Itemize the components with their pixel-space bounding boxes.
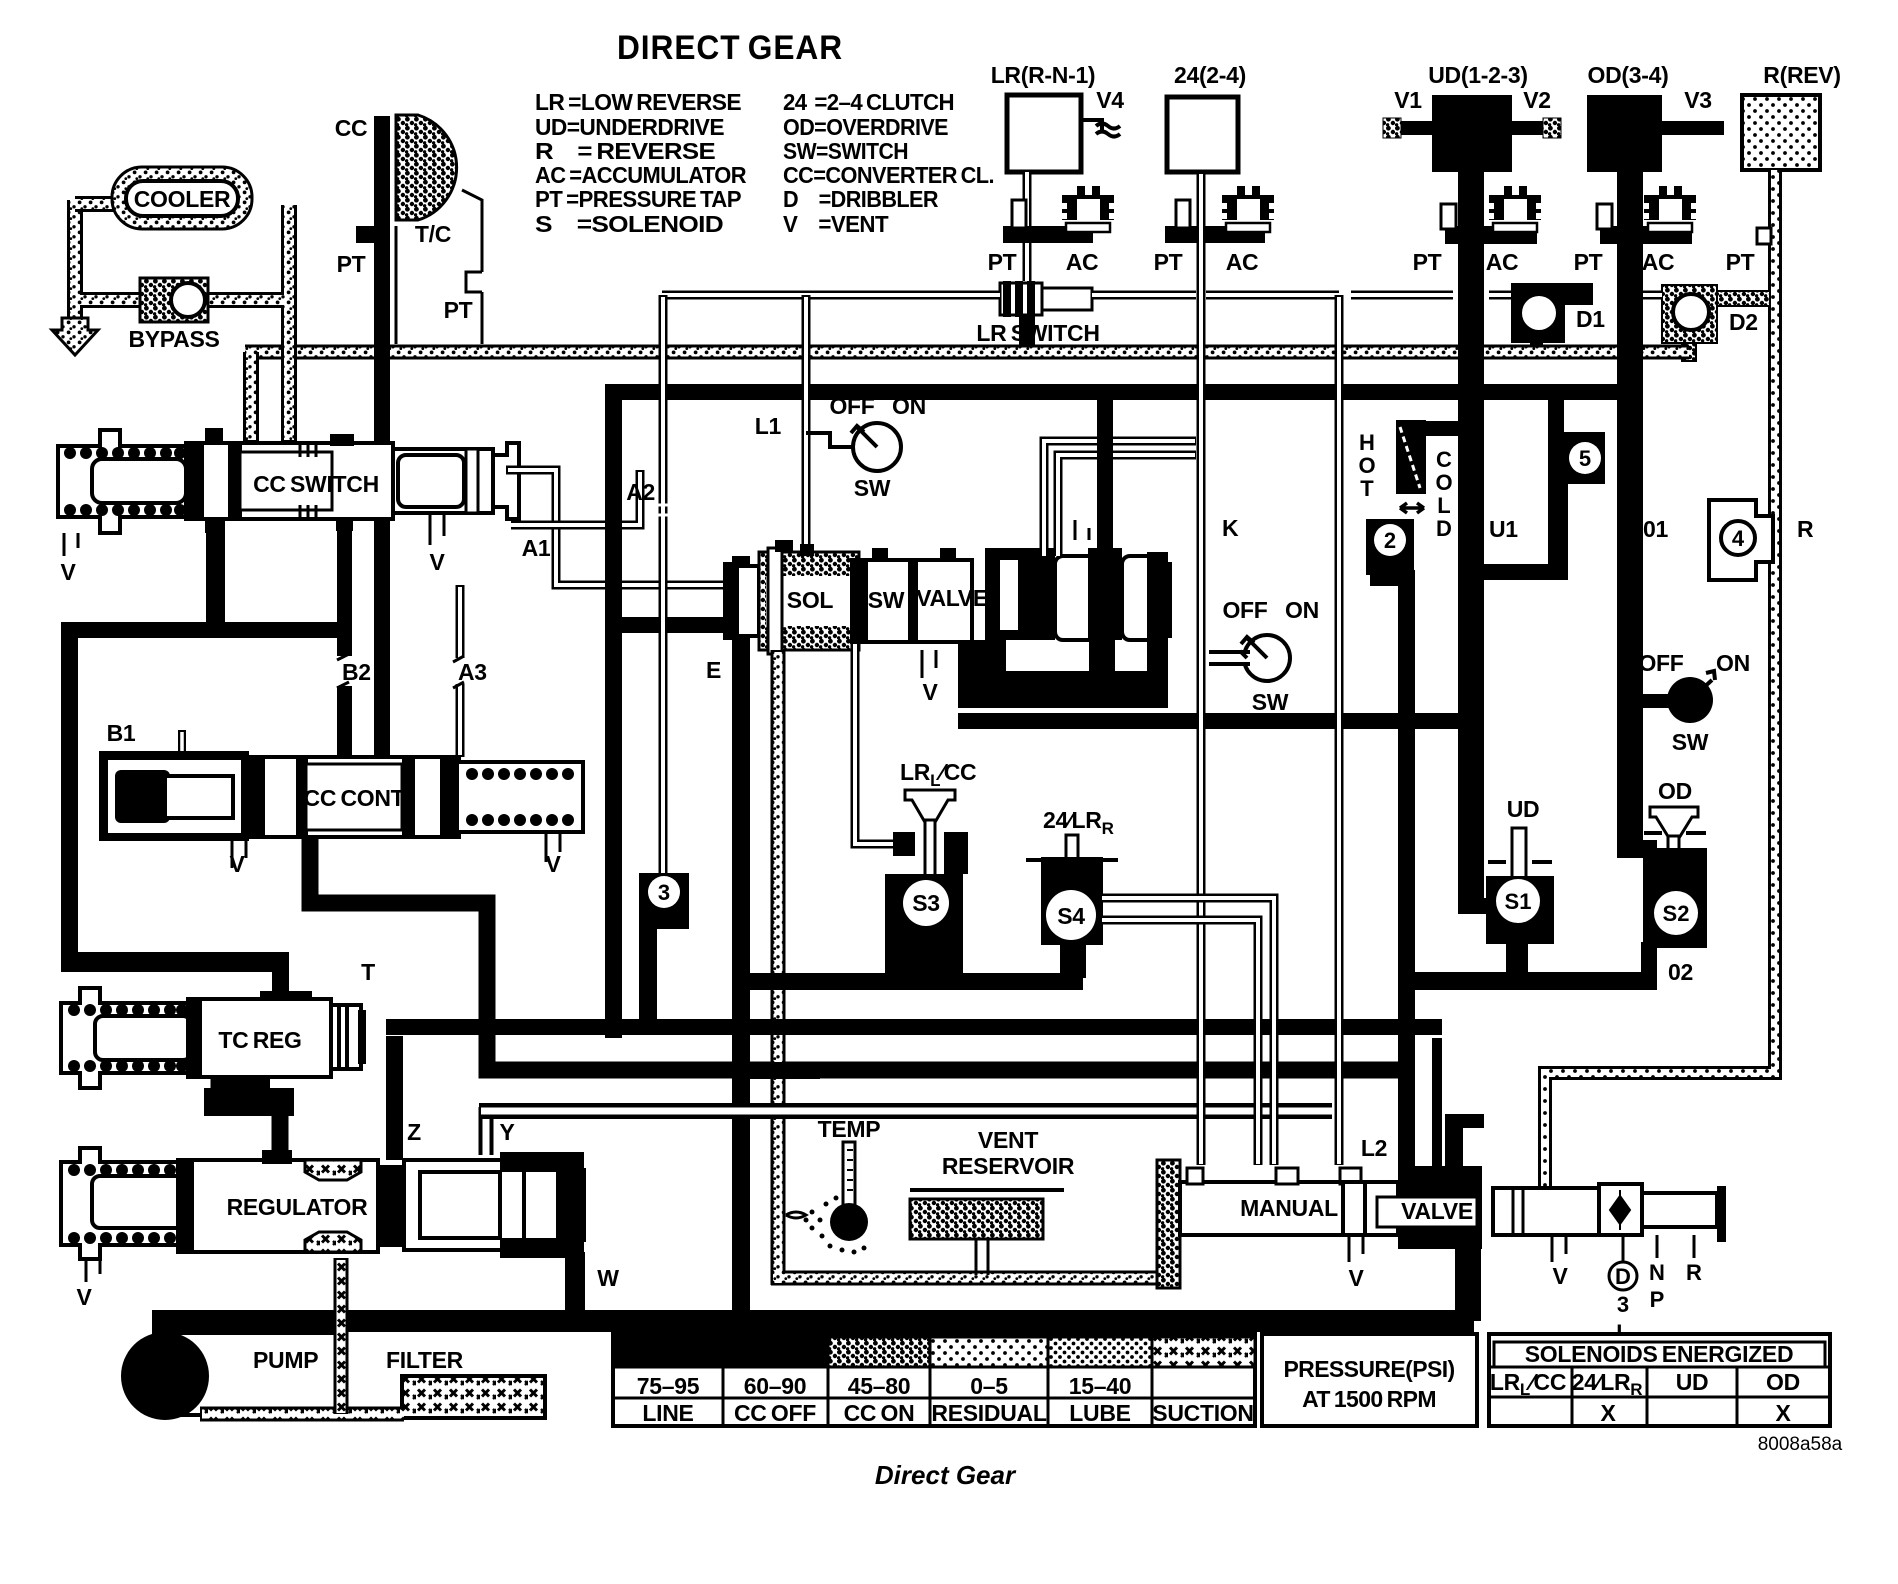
- bottom ports: [205, 519, 225, 533]
- wire S4 drain to line02mid: [1060, 942, 1086, 978]
- svg-text:A3: A3: [458, 659, 487, 685]
- vent stub V (CC CONT right): [546, 832, 560, 862]
- svg-text:0–5: 0–5: [970, 1373, 1008, 1399]
- wire Z vertical up from regulator: [386, 1036, 403, 1160]
- wire B2 vertical: [337, 519, 352, 759]
- wire main converter stippled line y352: [245, 345, 1490, 360]
- wire A1 channel from CC SWITCH to solenoid valve: [506, 470, 723, 585]
- vent stub V (solenoid valve): [922, 650, 936, 678]
- svg-text:DIRECT GEAR: DIRECT GEAR: [617, 29, 843, 67]
- manual valve right stub: [1642, 1193, 1717, 1227]
- left end cap: [723, 562, 737, 640]
- svg-text:ON: ON: [1716, 650, 1750, 676]
- spool lands: [1055, 556, 1115, 640]
- svg-text:L1: L1: [755, 413, 782, 439]
- svg-text:D =DRIBBLER: D =DRIBBLER: [783, 186, 939, 212]
- wire A2 thick vertical (H1 left corner down): [605, 384, 622, 1038]
- OD vertical patch over stipple: [1617, 340, 1643, 410]
- svg-text:VENT: VENT: [978, 1127, 1038, 1153]
- svg-text:R: R: [1686, 1260, 1702, 1285]
- device circled 2: [1366, 519, 1414, 575]
- LR SWITCH symbol: [1000, 283, 1042, 315]
- vent stub V (CC SWITCH left): [64, 533, 78, 556]
- svg-text:X: X: [1775, 1400, 1791, 1426]
- svg-text:PT =PRESSURE TAP: PT =PRESSURE TAP: [535, 186, 741, 212]
- svg-text:CC CONT: CC CONT: [304, 785, 405, 811]
- wire CC vertical to CC CONT: [374, 519, 390, 759]
- svg-text:AC =ACCUMULATOR: AC =ACCUMULATOR: [535, 162, 747, 188]
- wire L2 channel redraw: [1335, 295, 1344, 1165]
- S3 funnel: [905, 790, 955, 824]
- svg-text:W: W: [597, 1265, 619, 1291]
- vent stub V (CC SWITCH right): [430, 513, 444, 545]
- svg-text:R = REVERSE: R = REVERSE: [535, 138, 715, 164]
- wire A2/3 channel redraw: [659, 295, 668, 873]
- svg-text:A1: A1: [522, 535, 551, 561]
- svg-text:E: E: [706, 657, 721, 683]
- clutch box UD (applied, solid): [1432, 95, 1512, 172]
- wire R residual line down right edge: [1545, 170, 1775, 1188]
- vent stub V (manual left): [1349, 1235, 1363, 1262]
- svg-text:T: T: [361, 959, 375, 985]
- accumulator AC (OD): [1644, 186, 1696, 232]
- svg-text:V: V: [60, 559, 76, 585]
- svg-text:SUCTION: SUCTION: [1152, 1400, 1253, 1426]
- filter element: [402, 1376, 545, 1418]
- wire thin channel y1107: [479, 1103, 1332, 1119]
- TC REG right cap: [331, 1005, 361, 1069]
- SW section: [852, 560, 972, 642]
- svg-text:V =VENT: V =VENT: [783, 211, 889, 237]
- CC SWITCH right spool: [393, 449, 493, 513]
- wire E stipple channel (dribbler drain): [771, 650, 786, 1282]
- accumulator AC (24): [1222, 186, 1274, 232]
- wire line A: [386, 1019, 1442, 1035]
- svg-text:75–95: 75–95: [637, 1373, 700, 1399]
- wire OD thick line down: [1617, 172, 1643, 848]
- svg-text:S1: S1: [1505, 889, 1532, 914]
- svg-text:24 =2–4 CLUTCH: 24 =2–4 CLUTCH: [783, 89, 954, 115]
- svg-text:FILTER: FILTER: [386, 1347, 464, 1373]
- svg-text:CC ON: CC ON: [844, 1400, 915, 1426]
- svg-text:P: P: [1650, 1287, 1665, 1312]
- svg-text:OFF: OFF: [829, 393, 874, 419]
- wire S3 feed channel: [855, 642, 898, 844]
- wire A2 / 3 line channel: [659, 295, 668, 878]
- svg-text:2: 2: [1384, 528, 1396, 553]
- svg-text:D2: D2: [1729, 309, 1758, 335]
- svg-text:RESERVOIR: RESERVOIR: [942, 1153, 1075, 1179]
- wire horizontal y962 to TC REG: [61, 952, 289, 972]
- solenoid S4: [1026, 807, 1118, 945]
- clutch box LR: [1007, 95, 1081, 172]
- svg-text:D: D: [1436, 516, 1452, 541]
- UD pin: [1512, 828, 1526, 883]
- wire A1 upper branch channel: [511, 470, 640, 525]
- dribbler D1: [1511, 283, 1593, 358]
- svg-text:D1: D1: [1576, 306, 1605, 332]
- black spool section: [985, 548, 1055, 640]
- cooler body: [112, 167, 252, 229]
- A3 thin line into CC CONT: [456, 585, 465, 757]
- wire UD thick line down: [1458, 172, 1484, 908]
- wire UD elbow into S1: [1458, 898, 1504, 914]
- label B2 (break): [333, 656, 355, 686]
- cooler left stub: [75, 196, 115, 212]
- svg-text:OD: OD: [1766, 1369, 1800, 1395]
- svg-text:U1: U1: [1489, 516, 1518, 542]
- svg-text:PUMP: PUMP: [253, 1347, 318, 1373]
- svg-text:PT: PT: [988, 249, 1017, 275]
- wire manual valve drain to main line: [1455, 1249, 1481, 1321]
- PT/AC bar LR: [1003, 226, 1093, 243]
- svg-text:LR SWITCH: LR SWITCH: [976, 320, 1099, 346]
- wire S4 channel right and down to manual valve: [1102, 898, 1274, 1165]
- reservoir tank: [910, 1188, 1064, 1192]
- svg-text:OD(3-4): OD(3-4): [1588, 62, 1669, 88]
- svg-text:V: V: [922, 679, 938, 705]
- svg-text:PT: PT: [1413, 249, 1442, 275]
- svg-text:V3: V3: [1684, 87, 1712, 113]
- svg-text:S =SOLENOID: S =SOLENOID: [535, 211, 723, 237]
- clutch box 24: [1167, 97, 1238, 172]
- svg-text:SW: SW: [1672, 729, 1709, 755]
- PT notch on R line: [1757, 228, 1771, 244]
- wire CC SWITCH drain pair down: [206, 519, 225, 630]
- svg-text:MANUAL: MANUAL: [1240, 1195, 1338, 1221]
- manual valve stipple left end: [1157, 1160, 1180, 1288]
- wire under-valve horizontal to E black: [605, 617, 745, 633]
- wire main line-pressure manifold H1 y392: [605, 384, 1632, 400]
- svg-text:CC=CONVERTER CL.: CC=CONVERTER CL.: [783, 162, 994, 188]
- svg-text:TEMP: TEMP: [818, 1116, 881, 1142]
- svg-text:REGULATOR: REGULATOR: [227, 1194, 369, 1220]
- value row: [637, 1373, 1131, 1399]
- wire line02mid over E channel: [757, 973, 817, 990]
- svg-text:V2: V2: [1523, 87, 1551, 113]
- wire E black vertical: [732, 556, 750, 1332]
- svg-text:SW=SWITCH: SW=SWITCH: [783, 138, 908, 164]
- legend column 2: [783, 89, 994, 237]
- PT tap on CC line: [356, 226, 374, 243]
- S4 base: [1041, 857, 1103, 945]
- wire thin top manifold y290: [662, 291, 1662, 300]
- wire lineB over E channel: [750, 1062, 820, 1079]
- wire CC CONT drain: down, right, down, to line B: [310, 837, 1404, 1070]
- svg-text:15–40: 15–40: [1069, 1373, 1131, 1399]
- wire CC thick vertical: [374, 116, 390, 446]
- svg-text:V: V: [545, 851, 561, 877]
- svg-text:L: L: [1437, 493, 1450, 518]
- solenoid S3: [885, 759, 976, 974]
- T/C cooler-feed outline: [396, 190, 482, 344]
- svg-text:24(2-4): 24(2-4): [1174, 62, 1246, 88]
- S4 stem: [1066, 835, 1078, 895]
- wire S4 lower channel: [1102, 920, 1258, 1165]
- svg-text:ON: ON: [1285, 597, 1319, 623]
- B1 thin port stub: [178, 730, 186, 753]
- svg-text:PT: PT: [1574, 249, 1603, 275]
- accumulator AC (LR): [1062, 186, 1114, 232]
- suction channel from filter to pump: [200, 1407, 404, 1422]
- label A3 (break): [452, 658, 468, 684]
- S2 base: [1643, 848, 1707, 948]
- dribbler D2: [1662, 285, 1770, 361]
- CC CONT right spring housing: [459, 762, 583, 832]
- top port tabs: [775, 540, 793, 552]
- solenoid S1: [1458, 796, 1554, 984]
- REGULATOR right section (Y spool): [378, 1165, 408, 1247]
- svg-text:H: H: [1359, 430, 1375, 455]
- wire 02 line: [1410, 972, 1657, 990]
- converter T/C dome: [396, 115, 457, 220]
- shifter N P: [1656, 1235, 1659, 1258]
- wire K line SW stub redraw: [1209, 650, 1250, 666]
- svg-text:PT: PT: [1154, 249, 1183, 275]
- bypass valve: [140, 278, 208, 322]
- svg-text:ON: ON: [892, 393, 926, 419]
- shifter R: [1693, 1235, 1696, 1258]
- wire thin channel valve to K line (inner): [1058, 455, 1196, 556]
- svg-text:45–80: 45–80: [848, 1373, 910, 1399]
- solenoids energized table: [1489, 1334, 1830, 1426]
- svg-text:LR(R-N-1): LR(R-N-1): [991, 62, 1096, 88]
- svg-text:VALVE: VALVE: [916, 585, 988, 611]
- switch SW (middle, off): [1209, 635, 1290, 681]
- device circled 5: [1548, 432, 1605, 484]
- svg-text:V: V: [1552, 1263, 1568, 1289]
- svg-text:B2: B2: [342, 659, 371, 685]
- svg-text:LINE: LINE: [642, 1400, 693, 1426]
- shifter D 3 L: [1609, 1235, 1637, 1345]
- wire 5 to UD line: [1548, 396, 1564, 436]
- svg-text:B1: B1: [107, 720, 136, 746]
- CC CONT body: [249, 757, 459, 837]
- svg-text:OD=OVERDRIVE: OD=OVERDRIVE: [783, 114, 948, 140]
- spring housing left (CC SWITCH): [58, 430, 186, 533]
- svg-text:SW: SW: [854, 475, 891, 501]
- switch SW (L1, off): [806, 423, 901, 471]
- svg-text:AT 1500 RPM: AT 1500 RPM: [1302, 1386, 1436, 1412]
- vent stub V (CC CONT left): [232, 841, 246, 868]
- wire LR box to LR switch: [1023, 172, 1032, 281]
- svg-text:4: 4: [1732, 526, 1745, 551]
- CC CONT actuator housing (black): [99, 751, 249, 841]
- wire L2 channel: [1335, 295, 1344, 1165]
- wire TC REG T-port stub: [272, 952, 289, 1003]
- svg-text:PRESSURE(PSI): PRESSURE(PSI): [1283, 1356, 1454, 1382]
- wire H2 from under valve to UD line: [958, 713, 1464, 729]
- pump body: [168, 1333, 340, 1415]
- REGULATOR body: [178, 1160, 378, 1252]
- PT/AC bar OD: [1600, 226, 1692, 244]
- wire left long vertical: [61, 623, 78, 972]
- svg-text:PT: PT: [444, 297, 473, 323]
- OD funnel: [1650, 807, 1698, 838]
- svg-text:A2: A2: [626, 479, 655, 505]
- svg-text:V: V: [429, 549, 445, 575]
- svg-text:R(REV): R(REV): [1763, 62, 1840, 88]
- wire L1 channel: [802, 295, 811, 553]
- svg-text:COOLER: COOLER: [134, 186, 231, 212]
- vent stub V (REGULATOR): [86, 1259, 100, 1282]
- svg-text:V1: V1: [1394, 87, 1422, 113]
- wire thin channel valve to K line (outer): [1044, 441, 1196, 556]
- svg-text:UD=UNDERDRIVE: UD=UNDERDRIVE: [535, 114, 724, 140]
- svg-text:LUBE: LUBE: [1069, 1400, 1130, 1426]
- svg-text:AC: AC: [1642, 249, 1675, 275]
- svg-text:TC REG: TC REG: [218, 1027, 301, 1053]
- wire lineA over E channel: [757, 1019, 817, 1035]
- solenoid S2: [1617, 778, 1707, 948]
- UD vertical patch over stipple: [1458, 340, 1484, 410]
- pump rotor: [121, 1332, 209, 1420]
- vent V4 squiggle: [1081, 120, 1120, 137]
- svg-text:AC: AC: [1066, 249, 1099, 275]
- clutch box R (residual, dotted): [1742, 95, 1820, 170]
- svg-text:N: N: [1649, 1260, 1665, 1285]
- svg-text:S4: S4: [1057, 903, 1085, 929]
- svg-text:V: V: [1348, 1265, 1364, 1291]
- manual valve black section: [1398, 1166, 1482, 1249]
- svg-text:CC SWITCH: CC SWITCH: [253, 471, 379, 497]
- svg-text:X: X: [1600, 1400, 1616, 1426]
- svg-text:OFF: OFF: [1222, 597, 1267, 623]
- break symbol A2: [655, 505, 671, 515]
- S1 base: [1486, 876, 1554, 944]
- svg-text:R: R: [1797, 516, 1814, 542]
- svg-text:RESIDUAL: RESIDUAL: [931, 1400, 1046, 1426]
- suction hatch notches: [305, 1160, 361, 1180]
- svg-text:BYPASS: BYPASS: [128, 326, 219, 352]
- TC REG body: [188, 999, 331, 1077]
- svg-text:SW: SW: [868, 587, 905, 613]
- svg-text:AC: AC: [1486, 249, 1519, 275]
- name row: [642, 1400, 1253, 1426]
- wire W drain from Y section to main line: [565, 1252, 585, 1322]
- svg-text:S2: S2: [1663, 901, 1690, 926]
- clutch box OD (applied, solid): [1587, 95, 1662, 172]
- wire Y channel connector: [479, 1107, 494, 1155]
- svg-text:Direct Gear: Direct Gear: [875, 1460, 1017, 1490]
- wire from 2 down to manual valve: [1370, 570, 1415, 586]
- suction channel regulator to filter line: [334, 1258, 349, 1414]
- svg-text:Z: Z: [407, 1119, 421, 1145]
- pattern row: [613, 1334, 723, 1367]
- manual valve right body: [1493, 1188, 1599, 1235]
- wire 24 line redraw: [1197, 172, 1206, 1165]
- wire circled3 drain to line A: [639, 925, 657, 1025]
- LR switch connection into stipple line: [1019, 315, 1035, 347]
- svg-text:02: 02: [1668, 959, 1693, 985]
- svg-text:PT: PT: [337, 251, 366, 277]
- svg-text:V4: V4: [1096, 87, 1124, 113]
- thermometer: [786, 1142, 868, 1255]
- vent stub V (valve right top): [1075, 520, 1089, 540]
- svg-text:LR =LOW REVERSE: LR =LOW REVERSE: [535, 89, 741, 115]
- reservoir boundary stipple channel: [771, 1120, 1165, 1285]
- device circled 3: [639, 873, 689, 929]
- svg-text:S3: S3: [912, 890, 940, 916]
- wire main pump pressure line: [152, 1310, 1474, 1332]
- wire stipple continues under D1/D2: [1490, 345, 1689, 360]
- svg-text:K: K: [1222, 515, 1239, 541]
- svg-text:PT: PT: [1726, 249, 1755, 275]
- svg-text:SW: SW: [1252, 689, 1289, 715]
- svg-text:VALVE: VALVE: [1401, 1198, 1473, 1224]
- wire valve underside loop (black): [958, 640, 1006, 708]
- wire H1 drop to valve (K feed): [1097, 392, 1113, 556]
- label HOT (vertical): [1358, 430, 1375, 501]
- PT/AC bar 24: [1165, 226, 1265, 243]
- svg-text:L2: L2: [1361, 1135, 1387, 1161]
- svg-text:CC OFF: CC OFF: [734, 1400, 816, 1426]
- svg-text:Y: Y: [499, 1119, 514, 1145]
- wire TC REG to REGULATOR elbow: [212, 1077, 289, 1165]
- svg-text:V: V: [76, 1284, 92, 1310]
- svg-text:8008a58a: 8008a58a: [1758, 1434, 1843, 1455]
- PT notch on T/C line: [466, 272, 482, 292]
- thermal element: [1396, 420, 1426, 494]
- svg-text:SOL: SOL: [787, 587, 834, 613]
- svg-text:CC: CC: [335, 115, 368, 141]
- wire manual valve black feeders from line A: [1432, 1038, 1442, 1166]
- svg-text:3: 3: [1617, 1292, 1629, 1317]
- stipple section around SOL: [759, 552, 859, 650]
- wire D1 stem to stipple line: [1530, 343, 1543, 353]
- svg-text:UD: UD: [1507, 796, 1540, 822]
- detent valve box: [1599, 1184, 1642, 1235]
- legend column 1: [535, 89, 747, 237]
- S3 stem brackets: [893, 832, 915, 856]
- svg-text:01: 01: [1643, 516, 1668, 542]
- svg-text:5: 5: [1579, 446, 1591, 471]
- S3 base: [885, 874, 963, 974]
- wire line02mid S3/S4 drain: [733, 973, 1083, 990]
- svg-text:D: D: [1615, 1264, 1631, 1289]
- svg-text:T/C: T/C: [415, 221, 451, 247]
- label COLD (vertical): [1435, 447, 1452, 541]
- switch SW (right, on): [1630, 671, 1715, 723]
- cooler drain arrow: [52, 318, 98, 355]
- spray dots: [804, 1196, 867, 1255]
- double arrow: [1400, 503, 1424, 513]
- svg-text:UD(1-2-3): UD(1-2-3): [1428, 62, 1528, 88]
- wire S4-manual channel redraw: [1102, 898, 1274, 1165]
- vent stub V (manual right): [1552, 1235, 1566, 1262]
- top port tabs: [205, 428, 223, 443]
- svg-text:O: O: [1358, 453, 1375, 478]
- svg-text:3: 3: [658, 880, 670, 905]
- wire 24 line down to manual valve: [1197, 172, 1206, 1165]
- svg-text:SOLENOIDS ENERGIZED: SOLENOIDS ENERGIZED: [1525, 1341, 1794, 1367]
- svg-text:AC: AC: [1226, 249, 1259, 275]
- manual valve body: [1180, 1182, 1398, 1235]
- svg-text:O: O: [1435, 470, 1452, 495]
- svg-text:UD: UD: [1676, 1369, 1709, 1395]
- device circled 4 on R line: [1709, 500, 1773, 580]
- pressure note box: [1262, 1334, 1477, 1426]
- svg-text:OD: OD: [1658, 778, 1692, 804]
- svg-text:OFF: OFF: [1638, 650, 1683, 676]
- CC SWITCH body: [186, 443, 393, 519]
- svg-text:60–90: 60–90: [744, 1373, 806, 1399]
- PT/AC bar UD: [1445, 226, 1537, 244]
- accumulator AC (UD): [1489, 186, 1541, 232]
- wire OD elbow into S2: [1617, 840, 1657, 858]
- svg-text:C: C: [1436, 447, 1452, 472]
- svg-text:T: T: [1360, 476, 1374, 501]
